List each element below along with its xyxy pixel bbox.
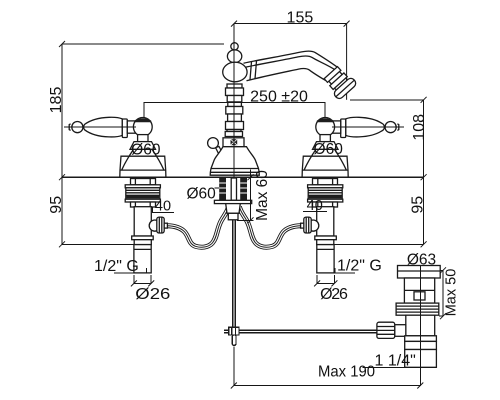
svg-text:108: 108 <box>411 114 428 141</box>
drain lower body <box>406 315 435 336</box>
handle shaft R <box>346 117 385 137</box>
svg-text:250 ±20: 250 ±20 <box>250 88 308 105</box>
shank nut 2 L <box>131 202 156 207</box>
valve dome R <box>313 142 339 150</box>
supply pipe L <box>134 245 151 273</box>
handle neck L <box>127 121 135 133</box>
dim max50 <box>442 270 444 316</box>
block A <box>225 132 242 137</box>
tick marks <box>59 21 446 389</box>
svg-text:40: 40 <box>307 198 323 214</box>
horizontal rod <box>239 329 431 331</box>
pop-up rod <box>224 220 431 345</box>
handle collar R <box>341 119 346 138</box>
spout arm bottom edge <box>247 68 326 80</box>
svg-text:Max 50: Max 50 <box>444 269 460 317</box>
leader half inch left <box>114 268 146 273</box>
drain rings <box>396 303 439 315</box>
neck ring 1 <box>227 84 242 88</box>
dim 108/95 vertical right <box>423 100 425 245</box>
neck ring 2 <box>226 88 244 96</box>
knurled nut <box>395 325 406 337</box>
pop-up lift knob <box>216 147 223 154</box>
center tube <box>231 178 236 200</box>
right hose <box>239 207 318 248</box>
dim max60 <box>250 170 252 221</box>
shank ribs L <box>126 188 160 199</box>
svg-text:Ø60: Ø60 <box>131 141 161 158</box>
spout joint ring <box>250 62 252 80</box>
dim 155 <box>234 23 347 25</box>
deck line <box>62 176 424 178</box>
handle tip ball L <box>72 122 83 133</box>
dim max190 <box>234 347 420 386</box>
svg-text:Ø26: Ø26 <box>320 286 348 303</box>
block B <box>223 138 244 147</box>
supply pipe R <box>317 245 334 273</box>
shank nut 1 R <box>313 179 338 185</box>
right valve assembly (mirror of left) <box>302 117 399 273</box>
dim extension top left <box>62 43 224 45</box>
escutcheon R <box>302 150 348 178</box>
dim extension bottom right <box>335 243 424 245</box>
svg-text:1 1/4": 1 1/4" <box>375 352 416 369</box>
stud left <box>219 178 226 200</box>
top knob <box>231 43 238 50</box>
svg-text:Ø60: Ø60 <box>186 186 216 203</box>
svg-text:1/2" G: 1/2" G <box>94 258 139 275</box>
dim 250 bracket <box>144 103 325 118</box>
dim extension outlet right <box>350 99 423 101</box>
valve stem L <box>138 135 148 142</box>
neck ring 7 <box>226 122 244 130</box>
svg-text:Max 60: Max 60 <box>254 170 271 221</box>
escutcheon L <box>120 150 166 178</box>
rod square <box>231 139 238 145</box>
aerator <box>322 64 358 100</box>
neck ring 3 <box>227 96 242 103</box>
spout arm inner edge <box>246 56 337 71</box>
svg-text:Ø60: Ø60 <box>314 141 344 158</box>
shank washer 2 L <box>125 199 160 202</box>
svg-text:95: 95 <box>410 196 427 214</box>
valve dome L <box>130 142 156 150</box>
center shank below deck <box>214 178 251 220</box>
drain collar <box>405 336 437 342</box>
supply washer L <box>132 236 154 240</box>
shank nut 1 L <box>131 179 156 185</box>
spout assembly <box>208 43 358 176</box>
svg-text:1/2" G: 1/2" G <box>337 258 382 275</box>
pivot ball L <box>133 118 152 137</box>
valve stem R <box>320 135 330 142</box>
hose fitting L <box>149 220 160 231</box>
main ball <box>223 62 247 82</box>
drain body <box>404 278 434 303</box>
dim o26 left <box>134 275 151 284</box>
dim 155 drop line (behind spout outlet) <box>346 24 348 100</box>
svg-text:Max 190: Max 190 <box>318 363 375 380</box>
leader 40 left <box>153 207 175 213</box>
handle collar L <box>122 119 127 138</box>
mounting nut <box>226 204 241 214</box>
valve body tube R <box>317 207 334 236</box>
stud right <box>240 178 247 200</box>
svg-text:40: 40 <box>155 199 171 215</box>
shank washer 2 R <box>308 199 343 202</box>
left valve assembly <box>69 117 166 273</box>
svg-text:95: 95 <box>48 196 65 214</box>
spout bell base <box>210 147 259 176</box>
handle neck R <box>333 121 341 133</box>
shank washer 1 L <box>125 185 160 188</box>
drain window <box>414 292 425 300</box>
svg-text:185: 185 <box>48 87 65 114</box>
leader 40 right <box>303 211 327 213</box>
shank nut 2 R <box>313 202 338 207</box>
svg-text:Ø63: Ø63 <box>407 251 436 268</box>
hose fitting R <box>308 220 319 231</box>
dim 185/95 vertical left <box>61 44 63 244</box>
clamp stubs <box>224 329 229 331</box>
mid ball <box>227 50 241 63</box>
lower block <box>228 213 238 220</box>
leader half inch right <box>335 268 355 273</box>
shank ribs R <box>308 188 342 199</box>
pivot cap R <box>317 118 334 122</box>
supply tube R <box>317 240 334 245</box>
shank washer 1 R <box>308 185 343 188</box>
drain assembly <box>377 266 440 368</box>
svg-text:155: 155 <box>287 10 314 27</box>
svg-text:Ø26: Ø26 <box>135 286 170 303</box>
neck ring 8 <box>227 130 241 132</box>
rod clamp <box>229 327 239 335</box>
left hose <box>149 207 229 248</box>
pivot ball R <box>316 118 335 137</box>
pivot cap L <box>134 118 151 122</box>
dim extension bottom left <box>62 243 134 245</box>
handle shaft L <box>84 117 123 137</box>
dim o26 right <box>317 275 334 284</box>
leader 1 1/4 <box>363 366 437 368</box>
rod tip <box>232 335 236 345</box>
dimension lines <box>59 21 446 389</box>
mounting plate <box>214 200 251 203</box>
neck ring 4 <box>228 102 242 107</box>
centerlines <box>64 24 421 386</box>
supply washer R <box>315 236 337 240</box>
leader o60 center <box>215 187 220 189</box>
neck ring 6 <box>228 114 242 122</box>
supply tube L <box>134 240 151 245</box>
neck ring 5 <box>226 107 243 115</box>
drain tailpipe <box>405 350 437 368</box>
drain flange <box>398 266 441 279</box>
spout arm top edge <box>244 51 340 69</box>
drain nut section <box>405 341 437 349</box>
valve body tube L <box>134 207 151 236</box>
handle tip ball R <box>385 122 396 133</box>
